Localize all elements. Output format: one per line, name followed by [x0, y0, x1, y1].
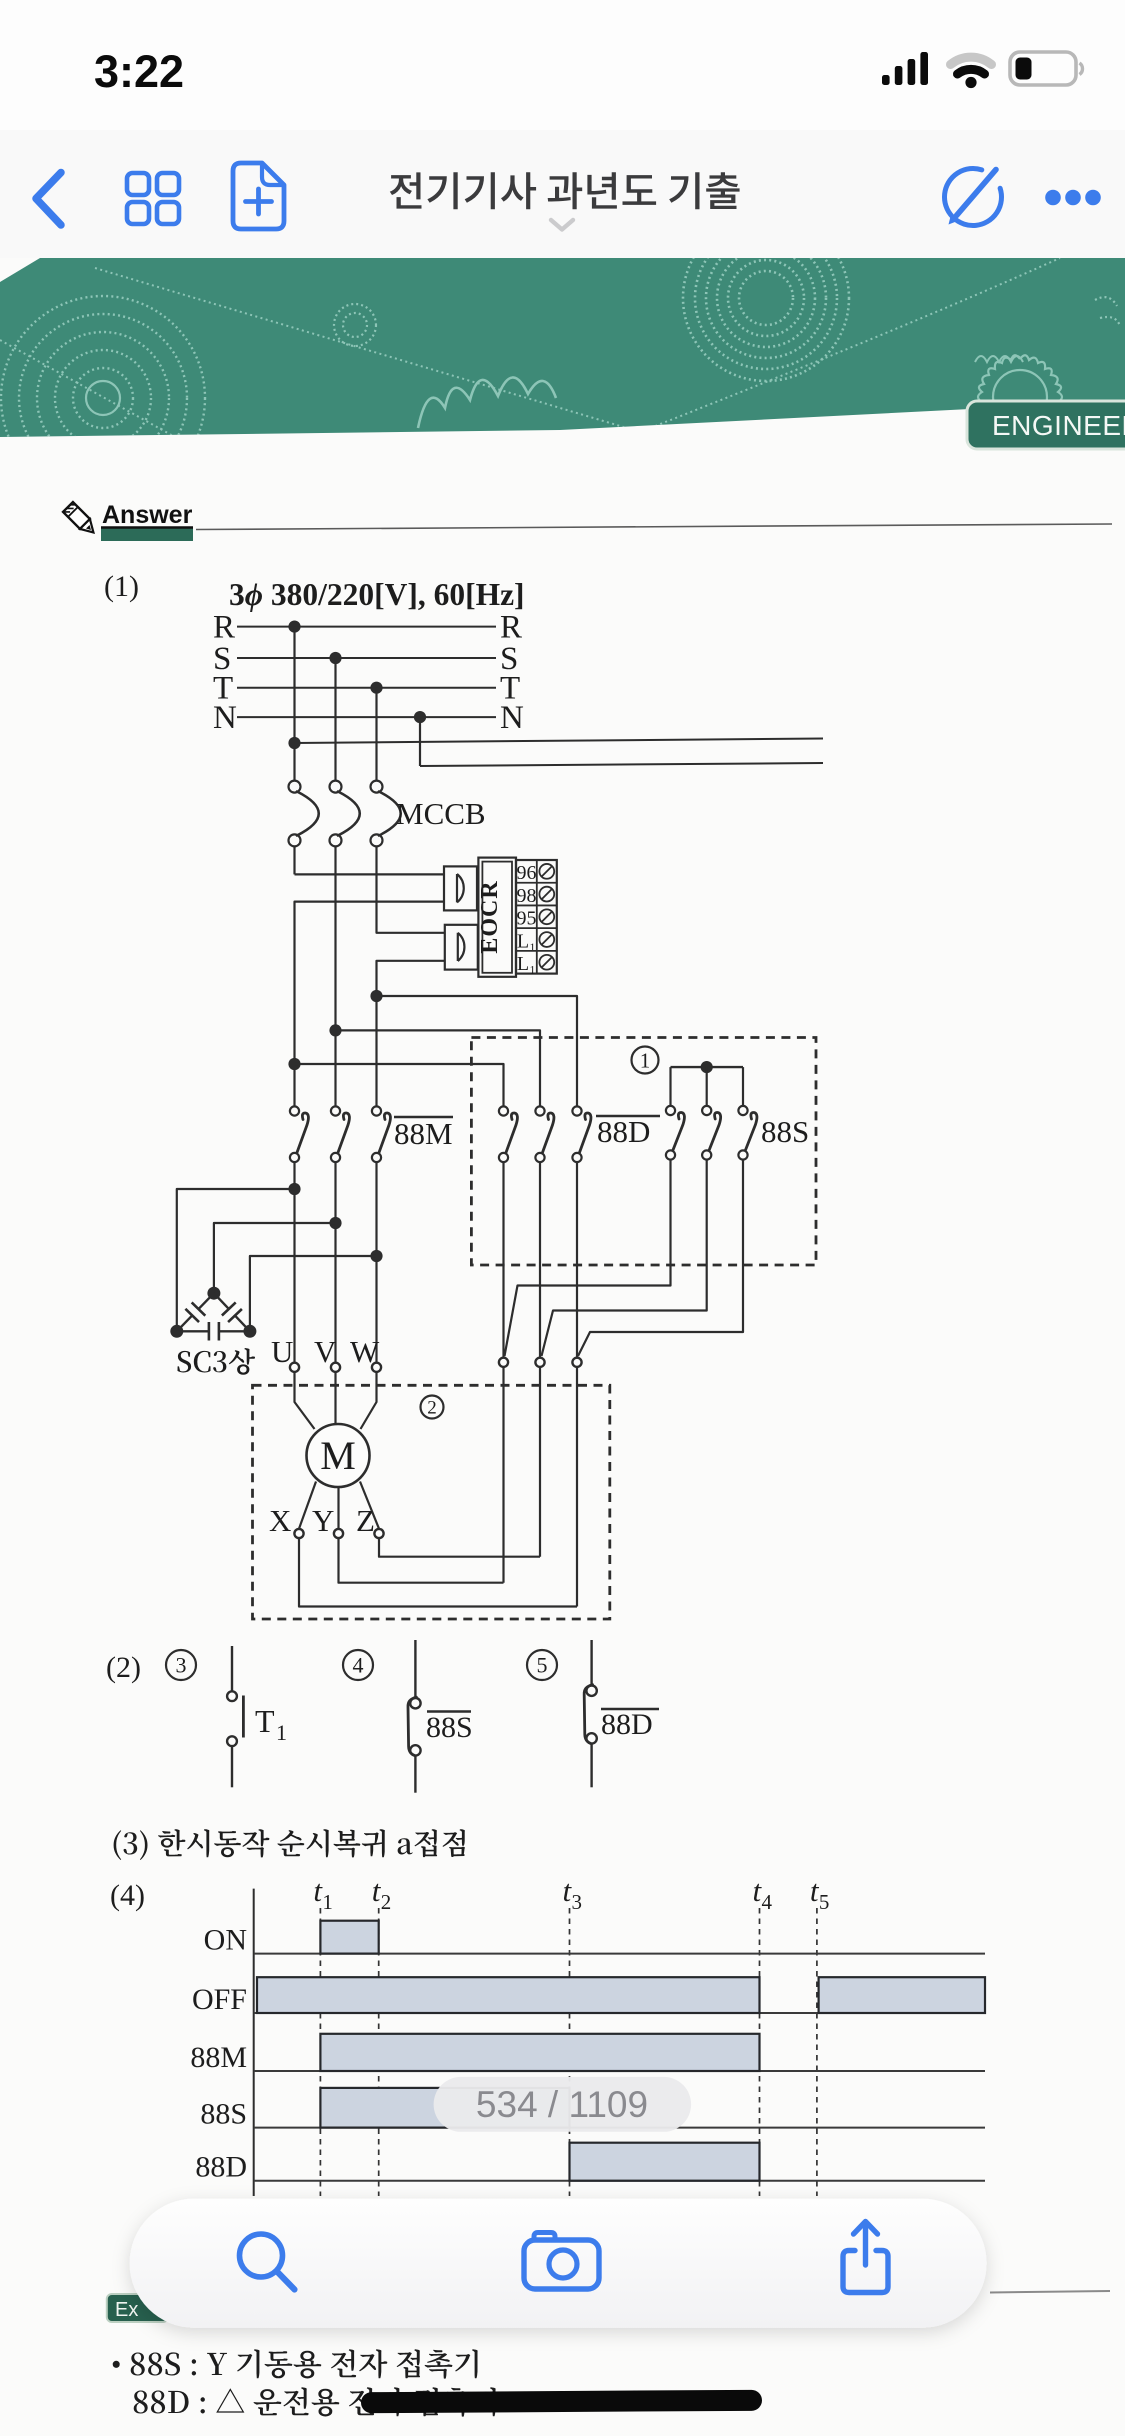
svg-text:4: 4	[353, 1653, 364, 1678]
svg-text:2: 2	[381, 1890, 392, 1914]
svg-text:88M: 88M	[394, 1116, 453, 1151]
svg-text:3: 3	[572, 1890, 583, 1914]
svg-text:4: 4	[762, 1890, 773, 1914]
svg-text:3: 3	[176, 1653, 187, 1678]
svg-text:1: 1	[322, 1890, 333, 1914]
svg-text:(4): (4)	[110, 1879, 145, 1912]
svg-text:MCCB: MCCB	[396, 796, 486, 831]
svg-text:T: T	[255, 1703, 275, 1739]
svg-text:88D: 88D	[601, 1708, 653, 1741]
svg-text:5: 5	[819, 1890, 830, 1914]
svg-text:96: 96	[517, 862, 537, 884]
svg-text:(2): (2)	[106, 1651, 141, 1684]
svg-text:534 / 1109: 534 / 1109	[476, 2084, 648, 2125]
svg-text:EOCR: EOCR	[477, 880, 503, 953]
svg-text:88S: 88S	[761, 1114, 809, 1149]
svg-text:ENGINEER: ENGINEER	[992, 410, 1125, 441]
svg-text:3:22: 3:22	[94, 46, 184, 97]
svg-text:1: 1	[640, 1048, 651, 1072]
svg-text:2: 2	[427, 1398, 437, 1419]
svg-text:88M: 88M	[190, 2041, 247, 2074]
svg-text:(1): (1)	[104, 570, 139, 603]
svg-text:L₁: L₁	[517, 930, 536, 952]
svg-text:M: M	[320, 1433, 356, 1478]
svg-text:Ex: Ex	[115, 2299, 138, 2321]
svg-text:3ϕ 380/220[V], 60[Hz]: 3ϕ 380/220[V], 60[Hz]	[229, 577, 525, 612]
svg-text:98: 98	[517, 885, 537, 907]
svg-text:Z: Z	[356, 1503, 375, 1538]
svg-text:L₁: L₁	[517, 953, 536, 975]
svg-text:OFF: OFF	[192, 1983, 247, 2016]
svg-text:N: N	[213, 700, 237, 736]
svg-text:N: N	[500, 700, 524, 736]
svg-text:95: 95	[517, 908, 537, 930]
svg-text:ON: ON	[204, 1924, 247, 1957]
svg-text:X: X	[269, 1503, 291, 1538]
svg-text:88D: 88D	[195, 2151, 247, 2184]
svg-text:Answer: Answer	[102, 501, 193, 529]
svg-text:88S: 88S	[200, 2098, 247, 2131]
svg-text:Y: Y	[312, 1503, 334, 1538]
svg-text:1: 1	[276, 1720, 287, 1745]
svg-text:5: 5	[537, 1653, 548, 1678]
svg-text:88S: 88S	[426, 1711, 473, 1744]
svg-text:88D: 88D	[597, 1114, 650, 1149]
